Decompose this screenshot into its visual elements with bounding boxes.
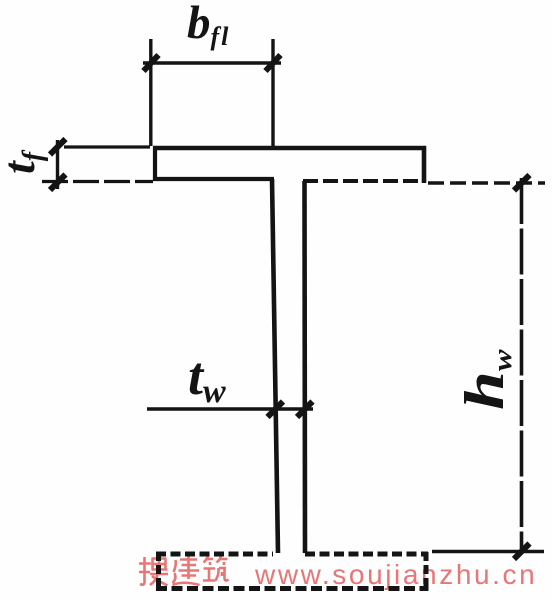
svg-text:www.soujianzhu.cn: www.soujianzhu.cn	[254, 559, 537, 590]
b_fl tick right	[266, 55, 281, 71]
svg-text:hw: hw	[454, 349, 518, 410]
dimension b_fl extension line left	[149, 39, 152, 146]
char 建	[173, 556, 200, 585]
bottom flange (dashed outline)	[156, 552, 429, 591]
I-beam section outline: top flange	[153, 146, 426, 183]
dimension b_fl extension line right	[271, 39, 274, 146]
char 筑	[203, 556, 229, 581]
web left wall	[272, 179, 278, 553]
char 搜	[139, 556, 168, 586]
h_w tick top	[514, 175, 530, 191]
dimension t_f top extension line	[64, 145, 150, 148]
dimension h_w bottom extension line	[432, 550, 544, 553]
t_f tick top	[50, 139, 66, 155]
dimension b_fl line	[143, 61, 281, 64]
dimension h_w line	[520, 178, 524, 554]
h_w tick bottom	[514, 544, 530, 560]
t_f tick bottom	[50, 175, 66, 191]
svg-text:bfl: bfl	[187, 0, 230, 51]
dimension h_w top extension line	[428, 181, 545, 184]
svg-text:tf: tf	[0, 149, 49, 174]
t_w tick at web left wall	[268, 402, 284, 418]
dimension t_f bottom extension line	[42, 180, 153, 183]
dimension t_w leader line	[147, 407, 313, 410]
dimension t_f line	[56, 140, 59, 189]
watermark 搜建筑 www.soujianzhu.cn	[139, 556, 229, 586]
web right wall	[302, 181, 307, 553]
svg-text:tw: tw	[188, 346, 226, 410]
b_fl tick left	[144, 55, 159, 71]
t_w tick at web right wall	[297, 402, 313, 418]
